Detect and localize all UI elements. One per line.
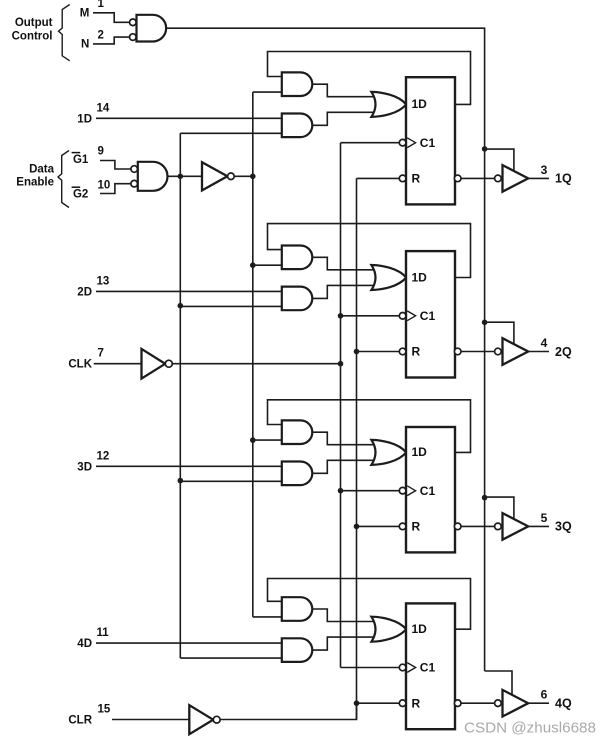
inverting input bubble M (gate U1) <box>130 19 137 26</box>
wire hold-AND output cell 1 <box>312 84 376 97</box>
three-state output buffer 4 <box>503 690 529 717</box>
wire hold-AND output cell 2 <box>312 257 376 270</box>
C1 input bubble FF1 <box>399 139 406 146</box>
junction inverted-enable rail to cell 3 gate <box>250 437 256 443</box>
svg-text:G2: G2 <box>73 188 88 200</box>
wire 4D input (pin 11) <box>96 642 282 644</box>
AND gate load path cell 4 <box>282 638 313 662</box>
junction reset rail to cell 4 R <box>354 700 360 706</box>
wire 2D input (pin 13) <box>96 290 282 292</box>
wire R stub cell 3 <box>357 525 400 527</box>
brace (output control) <box>59 5 70 61</box>
wire output 1Q (pin 3) <box>528 177 549 179</box>
svg-text:1D: 1D <box>412 270 428 284</box>
wire inverted-enable branch cell 2 <box>253 264 282 266</box>
svg-text:6: 6 <box>541 688 548 702</box>
svg-text:11: 11 <box>97 627 110 639</box>
junction clock rail to cell 2 C1 <box>338 313 344 319</box>
wire N input (pin 2) <box>93 37 129 44</box>
three-state output buffer 3 <box>503 513 529 540</box>
svg-text:2Q: 2Q <box>555 345 572 359</box>
inverting input bubble G2 (gate U2) <box>131 180 138 187</box>
wire Q feedback cell 1 <box>268 52 471 105</box>
wire Q feedback cell 4 <box>268 579 471 630</box>
svg-text:R: R <box>412 345 421 359</box>
inverter U5 (CLR inverter) <box>189 705 213 734</box>
svg-text:C1: C1 <box>420 661 436 675</box>
overline of G1 <box>72 152 81 154</box>
R input bubble FF3 <box>399 523 406 530</box>
wire load-AND output cell 2 <box>312 285 376 298</box>
svg-text:2D: 2D <box>77 286 92 298</box>
AND gate hold path cell 2 <box>282 246 313 270</box>
wire inverted-enable branch cell 4 <box>253 616 282 618</box>
wire 1D input (pin 14) <box>96 117 282 119</box>
svg-text:14: 14 <box>97 102 110 114</box>
wire enable branch cell 1 <box>180 132 281 134</box>
input bubble output buffer 1 <box>495 175 502 182</box>
wire clock rail (vertical) <box>340 143 342 668</box>
svg-text:CLR: CLR <box>68 715 92 727</box>
wire enable branch cell 4 <box>180 657 281 659</box>
svg-text:R: R <box>412 172 421 186</box>
svg-text:15: 15 <box>98 704 111 716</box>
wire inverted-enable branch cell 3 <box>253 439 282 441</box>
AND gate hold path cell 3 <box>282 420 313 444</box>
wire G2 input (pin 10) <box>100 184 131 194</box>
clock wedge (FF4) <box>407 663 415 673</box>
svg-text:1D: 1D <box>412 445 428 459</box>
output bubble of inverter U4 <box>165 360 172 367</box>
R input bubble FF4 <box>399 700 406 707</box>
svg-text:C1: C1 <box>420 136 436 150</box>
wire FF1 output to buffer <box>461 177 495 179</box>
input bubble output buffer 2 <box>495 348 502 355</box>
junction output-control to buffer 1 <box>482 146 488 152</box>
svg-text:Control: Control <box>12 31 53 43</box>
overline of G2 <box>72 186 81 188</box>
wire C1 stub cell 1 <box>341 142 400 144</box>
wire load-AND output cell 3 <box>312 460 376 473</box>
svg-text:1Q: 1Q <box>555 172 572 186</box>
svg-text:C1: C1 <box>420 484 436 498</box>
wire C1 stub cell 3 <box>341 490 400 492</box>
wire CLR input (pin 15) <box>112 719 189 721</box>
svg-text:3D: 3D <box>77 461 92 473</box>
wire load-AND output cell 1 <box>312 112 376 125</box>
junction inverted-enable rail to cell 2 gate <box>250 262 256 268</box>
svg-text:13: 13 <box>97 275 110 287</box>
svg-text:R: R <box>412 520 421 534</box>
svg-text:7: 7 <box>98 348 104 360</box>
svg-text:1: 1 <box>98 0 105 10</box>
svg-text:4D: 4D <box>77 638 92 650</box>
svg-text:Enable: Enable <box>16 177 54 189</box>
AND gate hold path cell 1 <box>282 72 313 96</box>
wire enable net (gate U2 output) <box>168 175 203 177</box>
wire inverted-enable net <box>234 175 253 177</box>
clock wedge (FF2) <box>407 311 415 321</box>
AND gate U1 (output control NOR) <box>137 15 167 42</box>
svg-text:4: 4 <box>541 336 548 350</box>
svg-text:12: 12 <box>97 450 110 462</box>
brace (data enable) <box>58 151 69 208</box>
three-state output buffer 2 <box>503 338 529 365</box>
svg-text:3Q: 3Q <box>555 520 572 534</box>
svg-text:CLK: CLK <box>68 359 92 371</box>
wire 3D input (pin 12) <box>96 465 282 467</box>
flip-flop FF1 body <box>406 77 455 204</box>
junction enable rail to cell 2 gate <box>178 303 184 309</box>
OR gate cell 2 <box>371 265 406 290</box>
junction reset rail to cell 3 R <box>354 524 360 530</box>
wire FF2 output to buffer <box>461 351 495 353</box>
OR gate cell 3 <box>371 440 406 465</box>
wire inverted-enable rail (vertical) <box>252 92 254 617</box>
wire Q feedback cell 3 <box>268 400 471 453</box>
flip-flop FF2 body <box>406 251 455 377</box>
junction clock rail at CLK input <box>338 361 344 367</box>
wire load-AND output cell 4 <box>312 637 376 650</box>
C1 input bubble FF4 <box>399 664 406 671</box>
wire M input (pin 1) <box>93 13 129 22</box>
wire C1 stub cell 2 <box>341 315 400 317</box>
svg-text:4Q: 4Q <box>555 697 572 711</box>
R input bubble FF2 <box>399 348 406 355</box>
svg-text:M: M <box>80 7 90 19</box>
AND gate load path cell 3 <box>282 462 313 486</box>
wire output 2Q (pin 4) <box>528 351 549 353</box>
wire enable rail (vertical) <box>179 133 181 658</box>
junction output-control to buffer 3 <box>482 495 488 501</box>
clock wedge (FF1) <box>407 138 415 148</box>
svg-text:1D: 1D <box>412 97 428 111</box>
AND gate load path cell 1 <box>282 114 313 138</box>
wire FF4 output to buffer <box>461 702 495 704</box>
inverting input bubble G1 (gate U2) <box>131 166 138 173</box>
wire hold-AND output cell 4 <box>312 609 376 622</box>
svg-text:9: 9 <box>98 146 104 158</box>
wire enable branch cell 2 <box>180 305 281 307</box>
svg-text:10: 10 <box>98 179 111 191</box>
Q output bubble FF4 <box>454 700 461 707</box>
inverter U4 (CLK inverter) <box>142 349 166 379</box>
wire CLK input (pin 7) <box>94 363 142 365</box>
svg-text:2: 2 <box>98 29 104 41</box>
svg-text:G1: G1 <box>73 154 89 166</box>
output bubble of inverter U3 <box>228 173 235 180</box>
svg-text:C1: C1 <box>420 309 436 323</box>
junction reset rail to cell 2 R <box>354 349 360 355</box>
flip-flop FF3 body <box>406 427 455 552</box>
wire enable branch cell 3 <box>180 480 281 482</box>
junction clock rail to cell 3 C1 <box>338 488 344 494</box>
svg-text:3: 3 <box>541 163 548 177</box>
wire buffer 1 enable jog <box>485 149 514 172</box>
Q output bubble FF1 <box>454 175 461 182</box>
svg-text:N: N <box>81 39 89 51</box>
OR gate cell 1 <box>371 92 406 117</box>
AND gate hold path cell 4 <box>282 597 312 621</box>
svg-text:Data: Data <box>29 164 55 176</box>
junction output-control to buffer 2 <box>482 320 488 326</box>
wire CLR net to reset rail <box>220 703 356 719</box>
wire output-control net (to output buffers) <box>166 28 484 671</box>
wire inverted-enable branch cell 1 <box>253 91 282 93</box>
clock wedge (FF3) <box>407 486 415 496</box>
wire R stub cell 4 <box>357 702 400 704</box>
wire CLK net to clock rail <box>172 363 340 365</box>
junction enable rail to cell 3 gate <box>178 478 184 484</box>
inverting input bubble N (gate U1) <box>130 34 137 41</box>
wire hold-AND output cell 3 <box>312 432 376 445</box>
input bubble output buffer 3 <box>495 523 502 530</box>
wire buffer 4 enable jog <box>485 671 512 697</box>
wire Q feedback cell 2 <box>268 224 471 278</box>
wire reset rail (vertical) <box>356 178 358 719</box>
svg-text:Output: Output <box>15 17 53 29</box>
svg-text:1D: 1D <box>412 622 428 636</box>
wire output 4Q (pin 6) <box>528 702 549 704</box>
C1 input bubble FF3 <box>399 487 406 494</box>
input bubble output buffer 4 <box>495 700 502 707</box>
wire G1 input (pin 9) <box>100 161 131 170</box>
svg-text:5: 5 <box>541 511 548 525</box>
three-state output buffer 1 <box>503 165 529 192</box>
flip-flop FF4 body <box>406 603 455 729</box>
junction inverted-enable to rail <box>250 174 256 180</box>
svg-text:1D: 1D <box>77 113 92 125</box>
wire R stub cell 2 <box>357 351 400 353</box>
OR gate cell 4 <box>371 617 406 642</box>
output bubble of inverter U5 <box>213 716 220 723</box>
wire output 3Q (pin 5) <box>528 525 549 527</box>
wire C1 stub cell 4 <box>341 667 400 669</box>
AND gate load path cell 2 <box>282 287 313 311</box>
svg-text:CSDN @zhusl6688: CSDN @zhusl6688 <box>464 720 596 737</box>
AND gate U2 (data enable) <box>138 162 168 191</box>
wire FF3 output to buffer <box>461 525 495 527</box>
junction enable net to enable rail <box>178 174 184 180</box>
Q output bubble FF2 <box>454 348 461 355</box>
R input bubble FF1 <box>399 175 406 182</box>
wire buffer 3 enable jog <box>485 497 514 520</box>
wire R stub cell 1 <box>357 177 400 179</box>
Q output bubble FF3 <box>454 523 461 530</box>
C1 input bubble FF2 <box>399 313 406 320</box>
inverter U3 (enable inverter) <box>202 162 227 190</box>
svg-text:R: R <box>412 696 421 710</box>
wire buffer 2 enable jog <box>485 322 514 345</box>
